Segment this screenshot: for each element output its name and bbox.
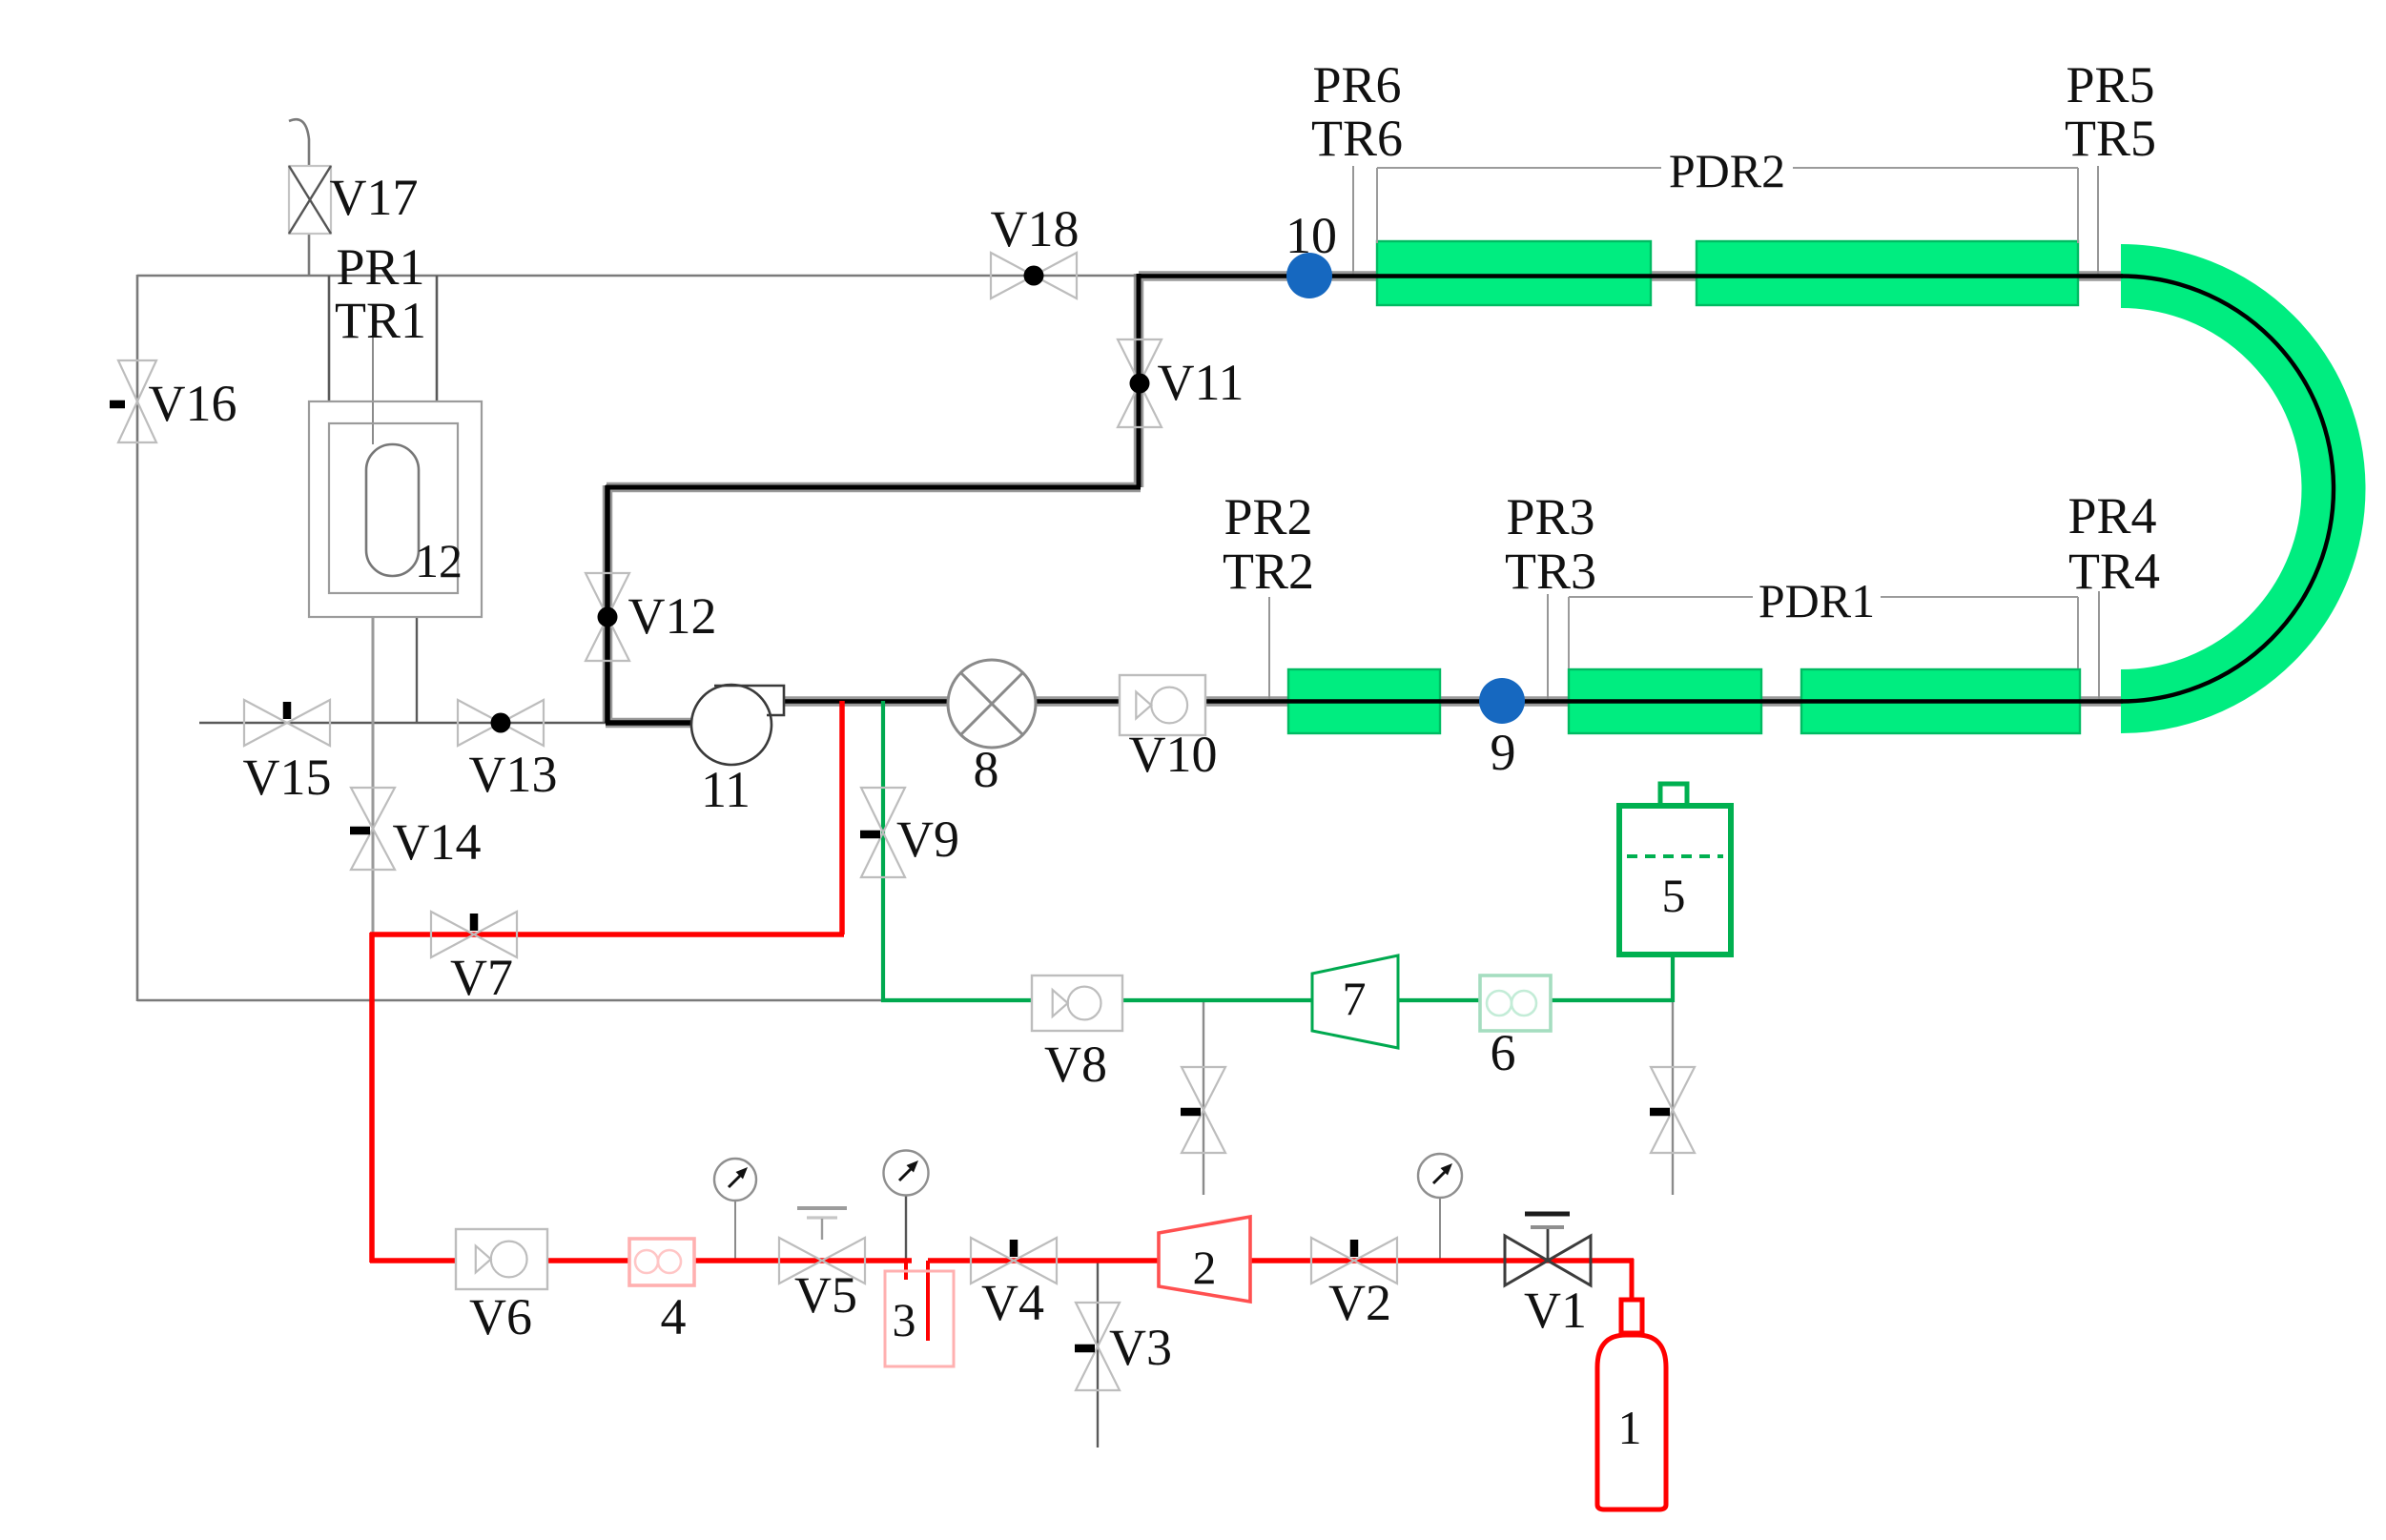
svg-text:V11: V11 [1158,354,1244,411]
svg-text:PR5: PR5 [2066,56,2154,113]
svg-text:1: 1 [1618,1401,1642,1454]
svg-text:6: 6 [1491,1024,1516,1081]
svg-text:V16: V16 [149,375,237,432]
svg-text:7: 7 [1343,972,1367,1025]
svg-text:PDR2: PDR2 [1669,144,1785,197]
svg-text:V2: V2 [1328,1274,1391,1331]
svg-text:V13: V13 [469,746,558,803]
svg-text:TR5: TR5 [2065,110,2156,167]
svg-text:V17: V17 [330,169,419,226]
svg-text:PDR1: PDR1 [1759,574,1875,627]
svg-text:12: 12 [415,534,463,587]
svg-text:V10: V10 [1129,726,1218,783]
svg-text:V8: V8 [1044,1036,1107,1093]
svg-text:V5: V5 [794,1266,857,1324]
svg-text:V6: V6 [469,1288,532,1345]
svg-text:V12: V12 [628,587,717,645]
svg-text:V18: V18 [991,200,1080,257]
svg-text:9: 9 [1491,724,1516,781]
svg-text:TR1: TR1 [335,292,426,349]
svg-text:V15: V15 [243,749,332,806]
svg-text:TR6: TR6 [1311,110,1403,167]
svg-text:5: 5 [1662,869,1686,922]
svg-text:V14: V14 [393,813,482,871]
svg-text:11: 11 [701,761,751,818]
svg-text:8: 8 [974,741,999,798]
svg-text:V9: V9 [896,811,959,868]
svg-text:PR1: PR1 [336,238,424,296]
svg-text:2: 2 [1193,1241,1217,1294]
svg-text:PR4: PR4 [2067,487,2156,544]
svg-text:PR2: PR2 [1224,488,1312,545]
svg-text:TR2: TR2 [1223,543,1314,600]
svg-text:PR6: PR6 [1312,56,1401,113]
svg-text:TR3: TR3 [1505,543,1596,600]
svg-text:4: 4 [661,1288,687,1345]
svg-text:3: 3 [893,1293,916,1346]
svg-text:TR4: TR4 [2068,543,2160,600]
svg-text:V3: V3 [1109,1319,1172,1376]
svg-text:V4: V4 [981,1274,1044,1331]
svg-text:V1: V1 [1524,1282,1587,1339]
svg-text:PR3: PR3 [1506,488,1594,545]
svg-text:V7: V7 [450,949,513,1006]
svg-text:10: 10 [1286,207,1337,264]
